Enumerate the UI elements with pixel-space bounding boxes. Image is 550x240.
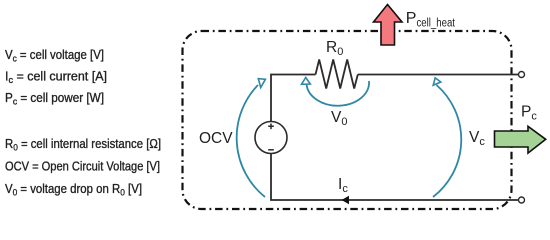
wire: top-right segment from resistor to positive terminal (358, 74, 519, 76)
blue arc: OCV voltage indicator (237, 85, 265, 197)
svg-text:OCV = Open Circuit Voltage [V]: OCV = Open Circuit Voltage [V] (5, 159, 160, 174)
svg-text:Vc = cell voltage [V]: Vc = cell voltage [V] (5, 47, 104, 65)
resistor R0 zigzag (316, 60, 358, 89)
svg-text:OCV: OCV (199, 130, 233, 147)
positive terminal node (519, 72, 525, 78)
svg-text:Ic = cell current [A]: Ic = cell current [A] (5, 69, 107, 87)
plus sign of source (268, 124, 274, 130)
red heat arrow P_cell_heat (374, 5, 403, 46)
blue arc: Vc voltage indicator on right (433, 85, 461, 197)
svg-text:V0 = voltage drop on R0 [V]: V0 = voltage drop on R0 [V] (5, 181, 142, 199)
minus sign of source (268, 149, 274, 151)
wire: bottom segment from OCV node to negative terminal (271, 154, 519, 201)
svg-text:R0: R0 (326, 39, 343, 58)
svg-text:Ic: Ic (338, 176, 348, 195)
svg-text:Pcell_heat: Pcell_heat (406, 10, 456, 30)
blue arc: V0 voltage indicator under resistor (307, 81, 370, 106)
svg-text:V0: V0 (331, 109, 347, 128)
voltage source OCV (circle with + and -) (255, 122, 287, 154)
blue open arrowhead of OCV arc (points NE) (258, 79, 265, 88)
svg-text:Pc: Pc (521, 104, 537, 123)
wire: top-left segment from OCV node up and right to resistor (271, 75, 316, 123)
negative terminal node (519, 197, 525, 203)
cell boundary dash-dot rounded rectangle (183, 31, 512, 209)
current direction arrowhead on bottom wire (342, 196, 350, 204)
svg-text:R0 = cell internal resistance: R0 = cell internal resistance [Ω] (5, 136, 161, 154)
green power arrow Pc (495, 126, 546, 153)
blue open arrowhead of Vc arc (points NNW) (433, 78, 441, 85)
blue open arrowhead of V0 arc (points N) (302, 78, 311, 85)
svg-text:Pc = cell power [W]: Pc = cell power [W] (5, 90, 104, 108)
svg-text:Vc: Vc (469, 129, 485, 148)
